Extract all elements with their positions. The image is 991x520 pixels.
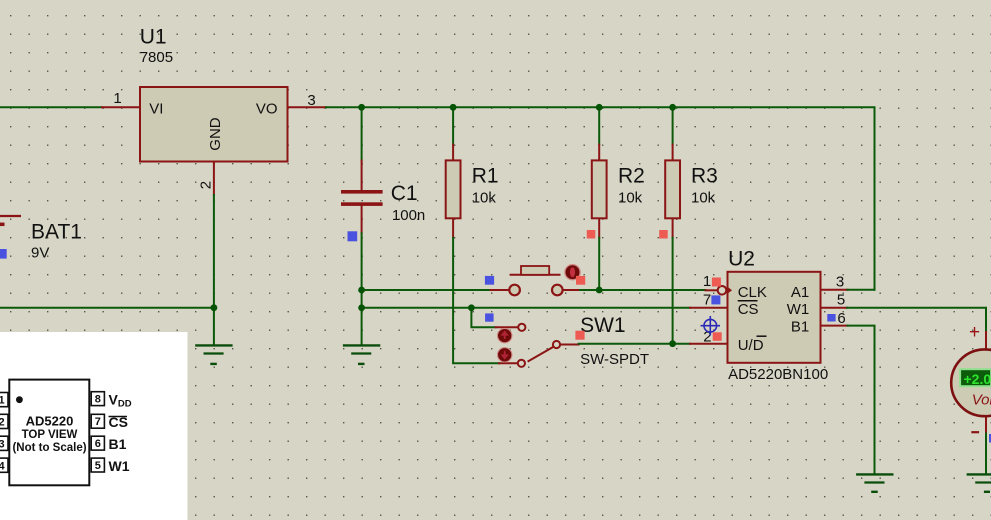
svg-text:7: 7 [703, 292, 711, 309]
wire: R3 bottom lead to U/D net [672, 218, 674, 237]
svg-text:100n: 100n [392, 207, 425, 224]
wire: U1 pin 3 stub [288, 106, 327, 108]
wire: +5V top rail [326, 107, 875, 289]
svg-text:R1: R1 [472, 165, 499, 188]
wire: R1 top lead [452, 107, 454, 144]
svg-text:CLK: CLK [738, 284, 767, 301]
wire: SPDT pole to U/D pin of U2 [560, 344, 579, 346]
wire: button to CLK pin of U2 [563, 289, 580, 291]
svg-text:Volts: Volts [972, 392, 991, 409]
wire: battery positive to U1 VI [0, 106, 102, 108]
battery BAT1 (mostly off-canvas) [0, 216, 21, 224]
svg-text:W1: W1 [109, 458, 130, 474]
svg-text:R2: R2 [618, 165, 645, 188]
junction node: CS branch [358, 304, 365, 311]
junction node: rail/R3 [669, 104, 676, 111]
svg-text:VI: VI [149, 101, 163, 118]
svg-text:GND: GND [207, 117, 224, 151]
marker: R3 red handle [659, 230, 668, 239]
junction node: CS/SPDT throw [468, 304, 475, 311]
voltage regulator U1 body [140, 87, 288, 162]
svg-text:CS: CS [738, 301, 759, 318]
marker: SW1 red handle [575, 331, 584, 340]
svg-text:8: 8 [95, 394, 101, 406]
switch SW1 (SPDT) [518, 324, 560, 367]
marker: R2 red handle [587, 230, 596, 239]
svg-text:TOP VIEW: TOP VIEW [22, 429, 78, 441]
marker: button blue handle [485, 276, 494, 285]
wire: CLK net from ground line to button [362, 289, 491, 291]
wire: R3 top lead [672, 107, 674, 144]
svg-text:5: 5 [95, 460, 101, 472]
junction node: R3/UD [669, 340, 676, 347]
svg-text:7: 7 [95, 416, 101, 428]
svg-text:U2: U2 [728, 247, 755, 270]
wire: U1 pin 2 GND stub [213, 162, 215, 196]
SW1 down actuator [498, 348, 512, 362]
marker: C1 blue handle [348, 231, 358, 241]
svg-text:SW1: SW1 [580, 314, 626, 337]
marker: pin1 red handle [712, 278, 721, 287]
inset: AD5220 datasheet image [0, 332, 188, 520]
svg-text:9V: 9V [31, 245, 49, 262]
pushbutton actuator [565, 265, 580, 280]
wire: R2 bottom lead to CLK net [598, 218, 600, 237]
wire: U2 B1 pin to ground [821, 325, 848, 327]
wire: R1 bottom lead down to SPDT bottom throw [452, 218, 454, 237]
wire: U1 pin 1 stub [102, 106, 140, 108]
wire: R2 top lead [598, 107, 600, 144]
wire: C1 top lead [361, 107, 363, 160]
pushbutton [509, 266, 562, 295]
svg-text:1: 1 [113, 90, 121, 107]
marker: button red handle [576, 276, 585, 285]
svg-text:U/D: U/D [738, 337, 764, 354]
junction node: rail/R2 [596, 104, 603, 111]
junction node: rail/R1 [450, 104, 457, 111]
svg-text:U1: U1 [140, 25, 167, 48]
junction node: GND/battery [211, 304, 218, 311]
marker: BAT1 blue handle [0, 249, 7, 259]
IC U2 AD5220 body [728, 272, 821, 363]
marker: SW1 blue handle [485, 313, 494, 321]
svg-text:6: 6 [837, 310, 845, 327]
capacitor C1 [341, 190, 383, 194]
marker: right edge blue handle [989, 434, 991, 443]
wire: U2 W1 pin to voltmeter [821, 307, 848, 309]
wire: U1 GND down to ground [213, 195, 215, 345]
junction node: rail/C1 [358, 104, 365, 111]
svg-text:AD5220BN100: AD5220BN100 [728, 366, 828, 383]
resistor R1 [446, 160, 461, 218]
marker: pin6 blue handle [827, 314, 835, 322]
wire: CS net [362, 307, 690, 309]
resistor R2 [592, 160, 607, 218]
wire: voltmeter negative to ground [985, 416, 987, 433]
voltmeter - terminal label [971, 431, 979, 433]
SW1 up actuator [498, 328, 512, 342]
ground: C1 [343, 345, 380, 364]
resistor R3 [665, 160, 680, 218]
svg-text:R3: R3 [691, 165, 718, 188]
svg-text:(Not to Scale): (Not to Scale) [12, 442, 86, 454]
svg-text:BAT1: BAT1 [31, 220, 82, 243]
svg-text:A1: A1 [791, 284, 809, 301]
marker: origin crosshair [701, 316, 720, 335]
svg-text:C1: C1 [391, 182, 418, 205]
svg-text:3: 3 [836, 274, 844, 291]
svg-text:10k: 10k [691, 190, 716, 207]
svg-text:W1: W1 [787, 301, 810, 318]
svg-text:+2.00: +2.00 [964, 371, 991, 387]
ground: U1 GND [195, 345, 232, 364]
svg-text:10k: 10k [618, 190, 643, 207]
svg-text:6: 6 [95, 438, 101, 450]
wire: battery negative to ground node [0, 307, 214, 309]
svg-text:3: 3 [307, 92, 315, 109]
svg-text:2: 2 [198, 181, 215, 189]
voltmeter [951, 349, 991, 416]
wire: U2 A1 pin to +5V rail [821, 289, 848, 291]
marker: pin7 blue handle [711, 295, 720, 304]
svg-text:AD5220: AD5220 [26, 414, 74, 429]
ground: U2 B1 [856, 474, 893, 491]
svg-text:B1: B1 [791, 318, 809, 335]
ground: voltmeter [967, 474, 991, 491]
svg-text:2: 2 [0, 417, 5, 429]
svg-text:7805: 7805 [140, 49, 173, 66]
svg-text:VO: VO [256, 101, 278, 118]
wire: C1 bottom lead to ground [361, 206, 363, 233]
junction node: R2/CLK [596, 287, 603, 294]
svg-text:1: 1 [0, 394, 5, 406]
svg-text:10k: 10k [472, 190, 497, 207]
junction node: CLK branch [358, 287, 365, 294]
svg-text:5: 5 [837, 292, 845, 309]
marker: pin2 red handle [713, 332, 722, 341]
svg-text:1: 1 [703, 273, 711, 290]
svg-text:+: + [969, 322, 980, 343]
wire: CS branch to SPDT top throw [471, 308, 495, 328]
svg-text:B1: B1 [109, 436, 127, 452]
svg-text:3: 3 [0, 438, 5, 450]
U2 CLK bubble [718, 286, 727, 295]
svg-text:SW-SPDT: SW-SPDT [580, 351, 649, 368]
